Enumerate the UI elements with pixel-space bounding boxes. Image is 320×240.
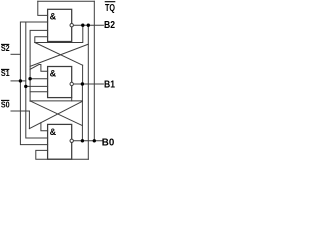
svg-text:B1: B1 (104, 79, 115, 90)
svg-text:S0: S0 (1, 101, 10, 110)
svg-text:B0: B0 (102, 137, 115, 148)
svg-text:&: & (50, 127, 57, 137)
svg-text:&: & (50, 12, 57, 22)
svg-text:B2: B2 (104, 20, 115, 31)
svg-text:&: & (50, 69, 57, 79)
svg-text:TQ: TQ (105, 3, 115, 14)
svg-text:S2: S2 (1, 44, 10, 53)
svg-text:S1: S1 (1, 69, 10, 78)
